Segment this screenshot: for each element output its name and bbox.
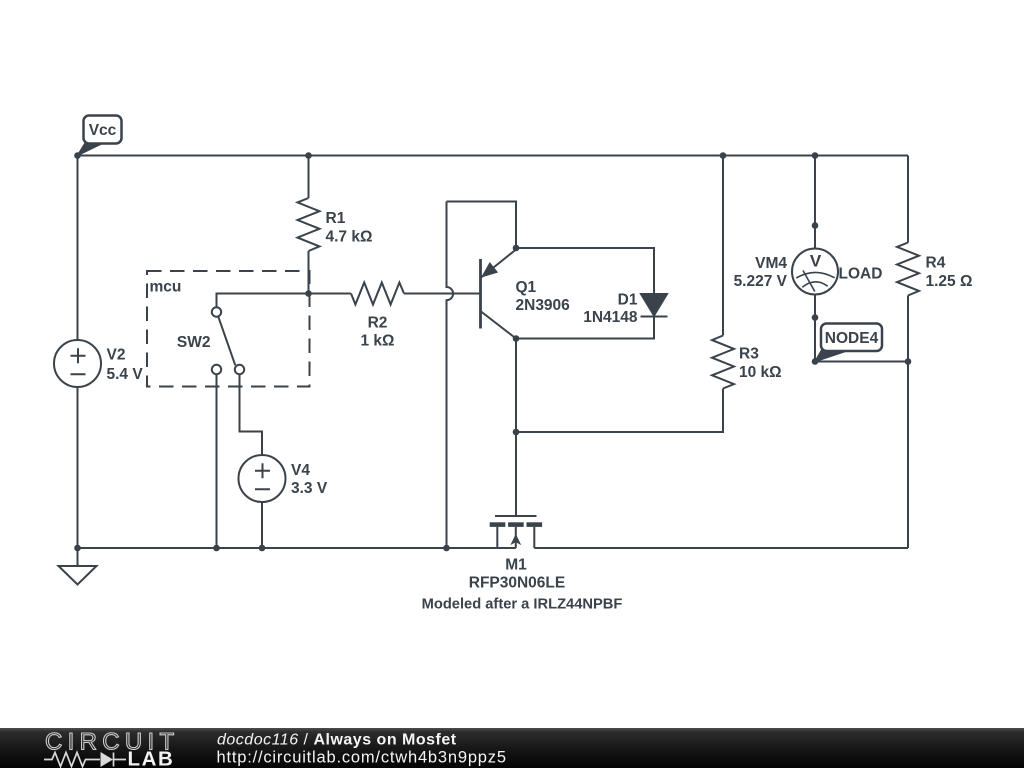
svg-text:V: V	[810, 252, 822, 271]
svg-text:R2: R2	[368, 315, 388, 332]
wire R2 right lead to Q1 base	[404, 293, 480, 295]
label R3 value	[739, 346, 782, 382]
label R1 value	[326, 210, 373, 246]
wire top rail Vcc	[78, 155, 909, 157]
label VM4 value	[734, 255, 788, 290]
svg-text:R4: R4	[926, 255, 946, 272]
svg-text:D1: D1	[618, 292, 638, 309]
wire NODE4 to R4 branch	[815, 361, 908, 363]
svg-text:1 kΩ: 1 kΩ	[361, 333, 395, 350]
wire VM4 bottom lead	[814, 295, 816, 362]
node emitter leg rail dot	[443, 545, 450, 552]
resistor R2	[351, 283, 404, 305]
diode D1	[641, 294, 668, 317]
svg-text:docdoc116 / Always on Mosfet: docdoc116 / Always on Mosfet	[217, 732, 457, 749]
voltage source V2	[54, 340, 101, 387]
svg-text:1N4148: 1N4148	[583, 309, 638, 326]
node SW2 leg rail dot	[213, 545, 220, 552]
svg-text:1.25 Ω: 1.25 Ω	[926, 273, 973, 290]
node VM4 top terminal dot	[812, 222, 819, 229]
label SW2	[177, 334, 211, 351]
wire collector to gate node	[515, 339, 517, 433]
node V4 rail dot	[259, 545, 266, 552]
svg-text:NODE4: NODE4	[825, 330, 879, 347]
node base junction dot	[305, 290, 312, 297]
node Vcc junction dot	[74, 152, 81, 159]
node VM4 bottom terminal dot	[812, 314, 819, 321]
wire left rail lower	[77, 387, 79, 548]
svg-text:Vcc: Vcc	[89, 122, 117, 139]
wire R4 top lead	[907, 156, 909, 243]
svg-text:Modeled after a IRLZ44NPBF: Modeled after a IRLZ44NPBF	[422, 597, 623, 613]
wire D1 bottom lead	[516, 317, 654, 339]
mcu dashed box	[147, 271, 310, 387]
svg-text:V4: V4	[291, 462, 310, 479]
node R4 branch dot	[905, 358, 912, 365]
node bottom-left junction dot	[74, 545, 81, 552]
voltmeter VM4	[792, 249, 838, 295]
node gate junction dot	[513, 429, 520, 436]
label mcu	[150, 279, 182, 296]
svg-text:R3: R3	[739, 346, 759, 363]
svg-text:4.7 kΩ: 4.7 kΩ	[326, 229, 373, 246]
wire D1 top lead	[516, 248, 654, 294]
wire gate node to R3	[516, 389, 723, 433]
wire bottom rail left (ground side)	[78, 547, 516, 549]
wire R2 left lead	[309, 293, 352, 295]
switch SW2	[212, 307, 244, 374]
wire ground stem	[77, 548, 79, 566]
svg-text:5.227 V: 5.227 V	[734, 273, 788, 290]
label Q1 value	[516, 279, 571, 314]
svg-text:mcu: mcu	[150, 279, 182, 296]
resistor R3	[712, 336, 734, 389]
transistor Q1	[481, 250, 517, 339]
wire V4 bottom lead	[261, 502, 263, 548]
label D1 value	[583, 292, 638, 327]
node Q1 emitter dot	[513, 245, 520, 252]
resistor R4	[897, 243, 919, 296]
label LOAD	[839, 266, 883, 283]
wire R3 top lead	[722, 156, 724, 336]
svg-text:2N3906: 2N3906	[516, 297, 571, 314]
svg-text:SW2: SW2	[177, 334, 211, 351]
label M1 value	[469, 557, 565, 592]
node Vcc flag	[78, 116, 122, 156]
svg-text:M1: M1	[505, 557, 527, 574]
wire Q1 emitter loop down with hop	[447, 202, 454, 549]
svg-text:V2: V2	[107, 347, 126, 364]
mosfet M1	[490, 516, 542, 548]
svg-text:10 kΩ: 10 kΩ	[739, 364, 782, 381]
svg-text:RFP30N06LE: RFP30N06LE	[469, 575, 565, 592]
node R3 top rail dot	[720, 152, 727, 159]
wire SW2 left leg to ground rail	[216, 374, 218, 548]
label model note	[422, 597, 623, 613]
voltage source V4	[239, 455, 286, 502]
wire VM4 top lead	[814, 156, 816, 249]
svg-text:http://circuitlab.com/ctwh4b3n: http://circuitlab.com/ctwh4b3n9ppz5	[217, 749, 507, 767]
wire gate stem	[515, 432, 517, 516]
label R4 value	[926, 255, 973, 291]
svg-text:5.4 V: 5.4 V	[107, 366, 144, 383]
wire left rail upper	[77, 156, 79, 341]
svg-text:R1: R1	[326, 210, 346, 227]
node NODE4 junction dot	[812, 358, 819, 365]
wire SW2 right leg to V4	[240, 374, 263, 455]
node VM4 rail dot	[812, 152, 819, 159]
label V4 value	[291, 462, 328, 497]
ground	[59, 566, 97, 585]
wire mcu switch feed	[217, 294, 309, 308]
wire R1 bottom lead	[308, 251, 310, 294]
node R1 top junction dot	[305, 152, 312, 159]
node Q1 collector dot	[513, 335, 520, 342]
wire R1 top lead	[308, 156, 310, 199]
svg-text:LAB: LAB	[128, 748, 175, 768]
wire Q1 emitter top loop	[447, 202, 517, 249]
svg-text:VM4: VM4	[755, 255, 787, 272]
resistor R1	[298, 198, 320, 251]
node NODE4 flag	[815, 324, 882, 362]
wire bottom rail right (drain side)	[534, 547, 908, 549]
svg-text:Q1: Q1	[516, 279, 537, 296]
label VM4 V letter	[810, 252, 822, 271]
wire R4 bottom lead	[907, 296, 909, 549]
svg-text:3.3 V: 3.3 V	[291, 480, 328, 497]
label R2 value	[361, 315, 395, 350]
svg-text:LOAD: LOAD	[839, 266, 883, 283]
label V2 value	[107, 347, 144, 384]
